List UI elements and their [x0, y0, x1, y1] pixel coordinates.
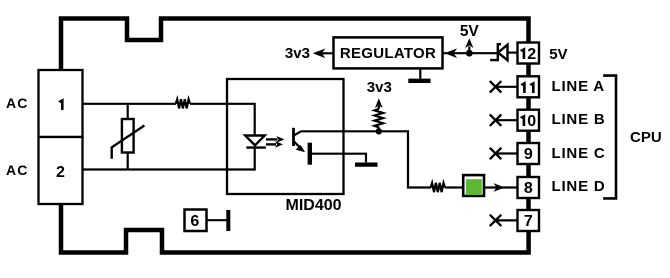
- svg-text:LINE C: LINE C: [552, 145, 606, 162]
- wire pin 9 no-connect: [497, 152, 518, 154]
- svg-text:2: 2: [527, 46, 536, 63]
- wire pin8-pin7: [526, 197, 531, 212]
- wire pin 11 no-connect: [497, 86, 518, 88]
- svg-text:MID400: MID400: [285, 197, 341, 214]
- pin 9: [518, 143, 540, 164]
- svg-text:5V: 5V: [549, 46, 567, 63]
- svg-text:2: 2: [56, 164, 65, 181]
- svg-text:5V: 5V: [460, 23, 480, 40]
- transistor Q1 collector: [294, 131, 302, 135]
- no-connect X (pin 10): [490, 115, 502, 126]
- wire varistor bottom tap: [127, 153, 129, 170]
- resistor R2 (pull-up to 3v3): [375, 109, 384, 127]
- wire pin9-pin8: [526, 164, 531, 179]
- wire emitter to ground: [312, 154, 366, 163]
- regulator U2 box: [334, 37, 443, 68]
- no-connect X (pin 11): [490, 81, 502, 92]
- pin 7: [518, 210, 540, 231]
- wire pin 6 stub: [207, 219, 227, 221]
- transistor Q1 emitter terminal bar: [308, 143, 312, 165]
- svg-text:CPU: CPU: [630, 129, 662, 146]
- svg-text:LINE B: LINE B: [552, 111, 606, 128]
- wire regulator output: [322, 52, 334, 54]
- svg-text:7: 7: [524, 213, 533, 230]
- board outline top wire: [61, 19, 529, 71]
- wire node to pin8 branch: [408, 130, 431, 187]
- diode D3 zener: [490, 44, 501, 60]
- wire pin12-pin11: [526, 63, 531, 78]
- svg-text:8: 8: [524, 180, 533, 197]
- ground (regulator): [419, 68, 421, 78]
- wire pin 10 no-connect: [497, 119, 518, 121]
- svg-text:0: 0: [527, 113, 536, 130]
- resistor R3 (series to LED2): [431, 183, 445, 192]
- wire pin11-pin10: [526, 97, 531, 112]
- pin 6 termination bar: [226, 210, 230, 231]
- wire AC2 to LED cathode: [83, 148, 255, 170]
- ground (emitter): [355, 163, 378, 167]
- wire green LED to pin 8: [485, 186, 518, 188]
- CPU bracket: [603, 76, 616, 199]
- optocoupler U1 MID400 box: [227, 79, 344, 194]
- pin 12: [518, 43, 540, 64]
- svg-text:9: 9: [524, 146, 533, 163]
- wire varistor top tap: [127, 104, 129, 119]
- varistor RV1: [122, 119, 134, 153]
- svg-text:REGULATOR: REGULATOR: [340, 45, 436, 62]
- wire pin10-pin9: [526, 130, 531, 145]
- board outline bottom wire: [61, 204, 529, 253]
- resistor R1 (series, AC1 line): [176, 99, 190, 108]
- svg-text:3v3: 3v3: [285, 45, 310, 62]
- terminal block pin 1: [39, 70, 83, 137]
- terminal block pin 2: [39, 137, 83, 204]
- svg-text:3v3: 3v3: [367, 79, 392, 96]
- svg-text:AC: AC: [6, 95, 28, 111]
- pin 10: [518, 110, 540, 131]
- svg-text:6: 6: [190, 213, 199, 230]
- transistor Q1 emitter: [294, 141, 300, 147]
- pin 8: [518, 177, 540, 198]
- wire AC1 to LED anode: [83, 104, 255, 136]
- pin 6: [185, 210, 207, 232]
- wire regulator input from zener: [443, 52, 497, 54]
- wire 5V arrow up: [468, 47, 470, 54]
- LED D1 (inside MID400): [245, 136, 265, 146]
- wire resistor to green LED: [445, 186, 463, 188]
- node 5V junction: [466, 50, 473, 57]
- no-connect X (pin 9): [490, 148, 502, 159]
- pin 11: [518, 76, 540, 97]
- wire resistor to 3v3 arrow: [378, 106, 380, 131]
- svg-text:LINE A: LINE A: [552, 78, 605, 95]
- transistor Q1 base bar: [292, 128, 295, 146]
- node collector junction: [376, 128, 382, 134]
- LED2 green indicator square: [463, 175, 484, 196]
- LED light arrow lower: [266, 143, 276, 145]
- no-connect X (pin 7): [490, 215, 502, 226]
- svg-text:AC: AC: [6, 162, 28, 178]
- svg-text:LINE D: LINE D: [552, 178, 606, 195]
- wire pin 7 no-connect: [497, 219, 518, 221]
- wire collector to pull-up node: [301, 130, 408, 132]
- LED light arrow upper: [266, 138, 278, 140]
